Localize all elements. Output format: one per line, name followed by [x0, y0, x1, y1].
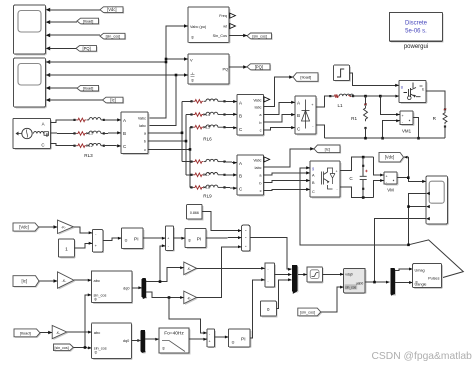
svg-text:A: A	[239, 161, 242, 166]
svg-text:Fo=40Hz: Fo=40Hz	[164, 331, 184, 337]
Scope2 input 2 arrowhead	[46, 73, 51, 77]
block powergui	[389, 12, 443, 49]
Scope3 input 2 arrowhead	[426, 192, 430, 195]
wire PWM pulses to inverter gate	[300, 166, 463, 277]
from tag [Vdc] (to Scope1)	[100, 7, 124, 14]
wire B2.b to rectifier B	[264, 113, 296, 122]
Scope1 input 3 arrowhead	[46, 33, 51, 37]
svg-text:B: B	[297, 113, 300, 118]
block three-phase V-I measurement B3	[237, 155, 265, 196]
junction node on Iabc riser	[175, 74, 178, 77]
RL branch RL7	[190, 172, 237, 177]
wire PI2 to M1	[206, 236, 242, 239]
wire bottom bus to VM1-	[383, 119, 400, 138]
wire B3.c to inverter C	[264, 188, 311, 191]
svg-text:+: +	[386, 175, 388, 179]
junction phase-b	[185, 140, 188, 143]
svg-text:CSDN @fpga&matlab: CSDN @fpga&matlab	[372, 351, 473, 362]
goto tag [PQ]	[247, 64, 271, 71]
PI controller PI1	[122, 228, 145, 250]
svg-text:0.866: 0.866	[190, 211, 199, 215]
junction bus-VM1-minus	[381, 137, 384, 140]
watermark text	[372, 351, 473, 362]
wire B2.a to rectifier A	[264, 101, 296, 115]
junction cap-top	[362, 156, 365, 159]
wire inverter+ to cap rail	[340, 157, 374, 170]
constant 0.866	[187, 205, 204, 221]
from tag [Iload] (to Scope1)	[77, 18, 100, 25]
svg-text:[sin_cos]: [sin_cos]	[55, 346, 69, 350]
wire uab0 riser to Scope3	[375, 219, 427, 282]
wire q to S4 feed	[169, 298, 207, 335]
wire K5 to T2	[67, 331, 92, 334]
svg-text:RL3: RL3	[84, 153, 93, 158]
wire 0 to mux M2	[276, 278, 291, 308]
junction d-line	[159, 280, 162, 283]
svg-text:[PQ]: [PQ]	[82, 46, 90, 51]
svg-text:+: +	[209, 340, 211, 344]
label RL6	[203, 137, 212, 142]
svg-text:dq0: dq0	[123, 287, 129, 291]
sum S3	[265, 263, 276, 288]
svg-text:-K-: -K-	[56, 331, 60, 335]
svg-text:sin_cos: sin_cos	[94, 294, 107, 298]
PI controller PI2	[185, 229, 207, 249]
resistor R	[433, 108, 447, 138]
mux M1	[242, 225, 252, 252]
wire phase-b riser	[148, 115, 192, 175]
junction uab0	[373, 281, 376, 284]
wire Vabc riser to PLL/PQ/Scope2	[46, 24, 188, 118]
voltage measurement VM1	[400, 111, 415, 133]
junction node on Vabc riser	[165, 58, 168, 64]
svg-text:1: 1	[65, 247, 68, 253]
from tag [sin_cos] (to T2)	[54, 344, 75, 352]
sum S2	[166, 226, 175, 251]
wire S1 to PI1	[103, 237, 122, 241]
wire [PQ]-Scope1	[49, 47, 76, 49]
svg-text:sin_cos: sin_cos	[345, 286, 356, 290]
wire D1.q to gain K4	[146, 292, 184, 299]
RL branch RL2	[51, 143, 122, 148]
wire D3 to PWM Uangle	[395, 281, 413, 284]
svg-text::: :	[465, 351, 468, 362]
junction q-line	[168, 296, 171, 299]
wire 0.866 to mux M1	[202, 211, 241, 232]
svg-text:-K-: -K-	[187, 267, 191, 271]
wire D2 to filter F1	[145, 338, 159, 341]
wire DC bottom bus	[325, 137, 445, 139]
junction pulses-bus	[407, 244, 410, 247]
wire [Ic] to gain K2	[39, 279, 58, 282]
goto tag [Vdc]	[379, 152, 405, 163]
block three-phase source	[13, 119, 52, 150]
demux D2	[137, 330, 146, 353]
junction R1-bus	[364, 137, 367, 140]
PLL wt open output arrow	[230, 24, 236, 29]
demux D1	[142, 279, 147, 300]
resistor R1	[351, 96, 367, 138]
svg-text:Sin_Cos: Sin_Cos	[213, 34, 227, 38]
Scope1 input 2 arrowhead	[46, 20, 51, 24]
constant 1	[59, 239, 76, 258]
RL branch RL1	[51, 131, 122, 136]
RL branch RL6-a	[190, 99, 237, 103]
capacitor C1	[349, 157, 367, 197]
from tag [Iload] (control)	[14, 329, 41, 338]
svg-text:[Vdc]: [Vdc]	[385, 155, 395, 160]
wire phase-a riser	[148, 101, 192, 161]
svg-text:c: c	[260, 129, 262, 133]
RL branch RL3-a	[51, 118, 122, 123]
sum S1	[92, 230, 104, 253]
mux M2	[292, 265, 298, 294]
goto tag [Iload]	[293, 73, 319, 83]
lowpass filter Fo=40Hz	[159, 328, 191, 355]
svg-text:abc: abc	[94, 330, 100, 335]
svg-text:V: V	[190, 58, 193, 63]
wire F1 to S4	[189, 338, 207, 341]
demux D3	[391, 268, 396, 295]
wire B2.Iabc to [Iload]	[264, 75, 294, 106]
svg-text:RL2: RL2	[86, 143, 93, 148]
svg-text:VM: VM	[387, 188, 394, 193]
svg-text:Iabc: Iabc	[255, 166, 262, 170]
svg-text:A: A	[239, 100, 242, 105]
step block Step	[334, 65, 351, 82]
wire [Iload] to gain K5	[40, 331, 52, 334]
IGBT inverter bridge U3	[310, 161, 341, 198]
voltage measurement VM	[384, 172, 399, 192]
wire PQ.out to [PQ]	[229, 65, 247, 68]
wire D3 to PWM Umag	[395, 268, 413, 271]
Scope1 input 4 arrowhead	[46, 46, 51, 50]
wire K3 to sum S3	[197, 267, 265, 270]
RL branch RL9-a	[190, 159, 237, 164]
wire B3.Iabc to [Ic]	[264, 147, 315, 167]
svg-text:-K-: -K-	[61, 226, 67, 230]
svg-text:RL4: RL4	[203, 112, 211, 117]
label RL9	[203, 194, 212, 199]
wire rectifier+ to L1	[316, 96, 330, 107]
svg-text:Umag: Umag	[415, 268, 425, 272]
svg-text:g: g	[401, 85, 403, 89]
wire Iabc riser to PQ/Scope2	[46, 73, 188, 125]
wire Step to chopper gate	[350, 73, 399, 87]
svg-text:C: C	[312, 190, 315, 194]
svg-text:+: +	[167, 237, 169, 241]
wire [Iload]-Scope1	[49, 21, 77, 23]
junction cap-bottom	[362, 196, 365, 199]
svg-text:dq0: dq0	[123, 339, 129, 343]
Scope2 input 1 arrowhead	[46, 60, 51, 64]
svg-text:R1: R1	[351, 116, 357, 121]
wire phase-c riser	[148, 127, 192, 187]
PWM generator block	[413, 264, 443, 289]
svg-text:[Ic]: [Ic]	[21, 279, 27, 284]
svg-text:-: -	[336, 187, 337, 191]
wire T2 to D2	[131, 340, 141, 342]
svg-text:c: c	[260, 189, 262, 193]
junction bus-VM1	[379, 95, 382, 98]
PLL Freq open output arrow	[230, 13, 236, 18]
junction bus-R1	[364, 95, 367, 98]
wire VM out to [Vdc] and scope	[397, 156, 426, 183]
wire B3.b to inverter B	[264, 179, 311, 183]
svg-text:abc: abc	[94, 278, 100, 283]
wire [Vdc]-Scope1	[49, 9, 100, 11]
svg-text:c: c	[144, 148, 146, 152]
block abc-dq0 transform T1	[91, 271, 133, 304]
junction phase-a	[181, 132, 184, 135]
svg-text:RL7: RL7	[203, 172, 210, 177]
svg-text:Vabc: Vabc	[253, 98, 261, 102]
junction VM-out	[407, 176, 410, 179]
goto tag [sin_cos]	[247, 33, 273, 40]
svg-text:b: b	[144, 140, 146, 144]
svg-text:PQ: PQ	[223, 67, 229, 72]
block three-phase V-I measurement B1	[121, 112, 149, 155]
wire S3 to mux M2	[275, 273, 292, 276]
svg-text:b: b	[259, 181, 261, 185]
svg-text:[Ic]: [Ic]	[110, 98, 115, 103]
wire PI1 to S2	[143, 237, 166, 240]
svg-text:A: A	[123, 118, 126, 123]
block three-phase V-I measurement B2	[237, 95, 265, 137]
svg-text:B: B	[239, 113, 242, 118]
svg-text:-K-: -K-	[187, 297, 191, 301]
junction sin_cos	[84, 346, 87, 349]
svg-text:RL8: RL8	[203, 185, 210, 190]
scope Scope3 (right)	[426, 176, 449, 225]
svg-text:B: B	[46, 133, 49, 138]
gain K2 (-K-)	[58, 272, 76, 290]
wire sin_cos to T2 and T1	[73, 293, 91, 349]
svg-text:Vabc (pu): Vabc (pu)	[190, 25, 207, 29]
wire SAT to T3	[322, 273, 343, 276]
svg-text:RL5: RL5	[203, 125, 210, 130]
block diode rectifier D1	[295, 96, 317, 135]
svg-text:RL1: RL1	[86, 131, 93, 136]
junction phase-c	[189, 148, 192, 151]
wire S2 to PI2	[174, 237, 186, 240]
wire pulses riser to Scope3	[409, 193, 427, 244]
wire [Iload]-Scope2	[49, 87, 77, 89]
svg-text:[Vdc]: [Vdc]	[19, 225, 29, 230]
gain K4 (-K-)	[184, 291, 198, 305]
wire PI3 up to sum S3	[250, 278, 265, 338]
wire chopper E to R	[426, 91, 445, 110]
svg-text:[Ic]: [Ic]	[325, 146, 330, 151]
wire S4 to PI3	[215, 336, 229, 339]
RL branch RL8	[190, 185, 237, 190]
wire M2 to SAT	[298, 273, 307, 276]
Scope2 input 4 arrowhead	[46, 98, 51, 102]
wire T1 to D1	[132, 286, 142, 289]
from tag [Iload] (to Scope2)	[77, 85, 100, 92]
gain K3 (-K-)	[184, 262, 198, 276]
svg-text:b: b	[259, 121, 261, 125]
wire const1 to S1	[74, 242, 92, 248]
svg-text:E: E	[422, 87, 424, 91]
goto tag [Ic]	[314, 145, 341, 154]
svg-text:Vabc: Vabc	[253, 158, 261, 162]
B3 Vabc open output arrow	[264, 157, 270, 162]
block PLL (3ph) U1	[188, 7, 230, 44]
block dq0-abc transform T3	[344, 268, 367, 294]
wire bus to VM1+	[380, 96, 400, 116]
from tag [Ic] (to Scope2)	[103, 97, 125, 104]
from tag [PQ] (to Scope1)	[76, 46, 98, 53]
svg-text:Pulses: Pulses	[428, 277, 439, 281]
wire d-feedback to S2	[160, 244, 166, 281]
svg-text:[Iload]: [Iload]	[83, 86, 94, 91]
scope Scope1	[14, 5, 47, 55]
svg-text:Iabc: Iabc	[139, 124, 146, 128]
gain K1 (-K-)	[58, 220, 75, 235]
svg-text:A: A	[42, 122, 45, 127]
svg-text:[Iload]: [Iload]	[83, 19, 94, 24]
wire K4 to mux M1 input3	[197, 245, 242, 297]
label RL3	[84, 153, 93, 158]
RL branch RL4	[190, 112, 237, 117]
wire rectifier- to bottom bus	[316, 125, 325, 138]
block PQ power measurement U2	[188, 54, 230, 85]
svg-text:5e-06 s.: 5e-06 s.	[405, 29, 427, 35]
svg-text:vdq0: vdq0	[345, 272, 352, 276]
svg-text:Vabc: Vabc	[138, 116, 146, 120]
junction VM1-bus	[417, 137, 420, 140]
svg-text:PI: PI	[241, 337, 246, 343]
wire VM1 output down to bus	[413, 118, 418, 139]
inductor L1	[329, 94, 354, 108]
wire D1.d to gain K3	[146, 266, 184, 281]
wire B2.c to rectifier C	[264, 126, 296, 130]
gain K5 (-K-)	[52, 326, 68, 341]
svg-text:B: B	[239, 173, 242, 178]
svg-text:[sin_cos]: [sin_cos]	[252, 34, 267, 38]
svg-text:PI: PI	[197, 237, 202, 243]
wire M1 out to mux M2	[250, 238, 292, 271]
junction pulses riser	[407, 205, 410, 208]
saturation block SAT	[307, 267, 324, 284]
svg-text:Iabc: Iabc	[255, 105, 262, 109]
wire T3.uab0 to demux D3	[365, 281, 390, 284]
svg-text:[PQ]: [PQ]	[255, 64, 263, 69]
svg-text:RL6: RL6	[203, 137, 212, 142]
wire [Vdc] to gain K1	[39, 225, 58, 228]
RL branch RL5	[190, 125, 237, 130]
svg-text:g: g	[312, 167, 314, 171]
svg-text:L1: L1	[337, 103, 343, 108]
B2 Vabc open output arrow	[264, 97, 270, 102]
block abc-dq0 transform T2	[92, 323, 133, 360]
from tag [sin_cos] (to T3)	[298, 308, 322, 317]
svg-text:Freq: Freq	[219, 14, 227, 18]
from tag [Ic] (control)	[13, 276, 40, 288]
svg-text:-K-: -K-	[62, 279, 68, 283]
wire sin_cos to T3	[321, 286, 344, 312]
svg-text:sin_cos: sin_cos	[94, 347, 107, 351]
svg-text:B: B	[123, 131, 126, 136]
Scope3 input 3 arrowhead	[426, 205, 430, 208]
wire cap to VM-	[374, 179, 384, 198]
Scope3 input 4 arrowhead	[426, 217, 430, 220]
wire [sin_cos]-Scope1	[49, 34, 100, 36]
wire PLL.Sin_Cos to [sin_cos]	[229, 34, 247, 37]
from tag [sin_cos] (to Scope1)	[100, 33, 126, 40]
svg-text:+: +	[402, 114, 404, 118]
sum S4	[207, 329, 216, 348]
PI controller PI3	[229, 329, 252, 348]
Scope2 input 3 arrowhead	[46, 86, 51, 90]
wire DC bus positive	[353, 95, 399, 98]
wire [Ic]-Scope2	[49, 99, 102, 101]
svg-text:VM1: VM1	[402, 129, 412, 134]
svg-text:[Iload]: [Iload]	[300, 75, 311, 80]
svg-text:[Iload]: [Iload]	[20, 330, 31, 335]
scope Scope2	[14, 58, 47, 108]
Scope1 input 1 arrowhead	[46, 8, 51, 12]
svg-text:C: C	[41, 143, 44, 148]
svg-text:RL9: RL9	[203, 194, 212, 199]
wire cap to VM+	[374, 157, 384, 176]
from tag [Vdc] (control)	[13, 223, 40, 232]
svg-text:+: +	[336, 169, 338, 173]
svg-text:powergui: powergui	[404, 44, 428, 50]
constant 0	[260, 301, 277, 317]
svg-text:[sin_cos]: [sin_cos]	[106, 35, 121, 39]
wire B3.a to inverter A	[264, 171, 311, 175]
svg-text:[sin_cos]: [sin_cos]	[300, 310, 315, 314]
wire K1 to S1	[73, 227, 92, 235]
svg-text:Discrete: Discrete	[405, 21, 428, 27]
svg-text:PI: PI	[134, 237, 139, 243]
svg-text:uab0: uab0	[356, 282, 364, 286]
svg-text:[Vdc]: [Vdc]	[107, 7, 116, 12]
wire K2 to T1	[74, 279, 91, 282]
IGBT chopper Q1	[399, 81, 427, 104]
wire inverter- to cap rail	[340, 187, 374, 198]
